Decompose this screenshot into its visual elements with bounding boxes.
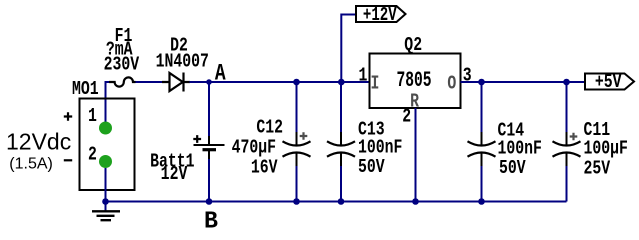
svg-text:O: O: [447, 74, 456, 95]
svg-text:1: 1: [88, 107, 97, 128]
junction Q2 pin2 / bottom rail: [412, 198, 419, 205]
svg-text:+5V: +5V: [595, 73, 622, 94]
node B: [204, 198, 218, 235]
svg-text:(1.5A): (1.5A): [9, 155, 53, 172]
svg-text:A: A: [215, 62, 226, 88]
svg-text:7805: 7805: [396, 67, 431, 93]
node A: [206, 62, 226, 88]
svg-text:12Vdc: 12Vdc: [6, 129, 71, 155]
wire Q2 output rail to +5V flag: [461, 81, 586, 83]
label 12Vdc source: [6, 129, 71, 173]
pin 2 of MO1: [88, 145, 112, 168]
svg-text:25V: 25V: [584, 159, 611, 180]
power flag +5V: [585, 73, 634, 94]
capacitor C13 100nF: [327, 79, 402, 205]
svg-text:100nF: 100nF: [498, 139, 542, 160]
svg-text:B: B: [204, 208, 218, 233]
ground: [92, 202, 120, 221]
svg-text:50V: 50V: [499, 159, 526, 180]
battery Batt1: [150, 82, 224, 202]
capacitor C11 100uF: [553, 79, 628, 202]
svg-text:Q2: Q2: [404, 36, 422, 57]
wire +12V riser: [341, 15, 356, 83]
regulator Q2 7805: [370, 36, 461, 113]
wire MO1 pin1 riser to fuse: [106, 82, 110, 122]
svg-text:3: 3: [463, 66, 472, 87]
diode D2 1N4007: [156, 36, 209, 91]
pin 1 of MO1: [88, 107, 112, 135]
svg-text:1N4007: 1N4007: [156, 52, 209, 73]
svg-text:230V: 230V: [104, 55, 140, 76]
wire MO1 pin2 to bottom rail: [105, 168, 107, 202]
fuse F1: [104, 27, 140, 87]
svg-text:1: 1: [359, 66, 368, 87]
svg-text:2: 2: [88, 145, 97, 166]
wire Q2 pin2 to bottom rail: [415, 108, 417, 202]
capacitor C12 470uF: [232, 79, 311, 205]
wire diode to regulator input (top rail): [190, 81, 371, 83]
svg-text:470µF: 470µF: [232, 138, 276, 159]
power flag +12V: [356, 5, 406, 27]
connector MO1: [64, 79, 135, 190]
wire fuse to diode: [136, 81, 164, 83]
svg-text:C12: C12: [256, 118, 283, 139]
svg-text:50V: 50V: [358, 158, 385, 179]
svg-text:16V: 16V: [251, 158, 278, 179]
svg-text:12V: 12V: [161, 165, 188, 186]
svg-text:2: 2: [402, 107, 411, 128]
svg-text:100µF: 100µF: [584, 139, 628, 160]
svg-text:MO1: MO1: [72, 79, 99, 100]
svg-text:+12V: +12V: [363, 5, 397, 27]
svg-text:I: I: [371, 74, 380, 95]
capacitor C14 100nF: [468, 79, 542, 205]
svg-text:100nF: 100nF: [358, 138, 402, 159]
junction ground/pin2: [102, 198, 109, 205]
bottom rail wire: [106, 201, 567, 203]
